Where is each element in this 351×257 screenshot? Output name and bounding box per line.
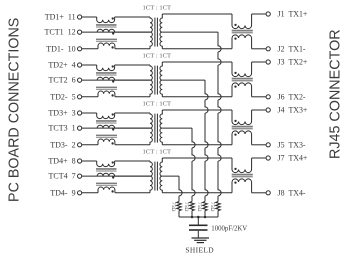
choke L1a phase dot (112, 17, 114, 19)
output choke L8 top phase dot (234, 168, 236, 170)
output choke L7 bottom phase dot (234, 133, 236, 135)
output choke L8 top winding (232, 158, 252, 173)
output choke L6 bottom winding (232, 83, 252, 97)
output choke L7 top winding (232, 110, 252, 125)
wire TD3- to choke (82, 144, 98, 146)
transformer T4 primary winding (150, 161, 152, 193)
wire TD2+ to choke (82, 64, 97, 66)
wire TCT4 to choke (82, 175, 150, 177)
output choke L5 core (232, 30, 253, 32)
svg-text:J6 TX2-: J6 TX2- (278, 92, 306, 101)
svg-text:J1 TX1+: J1 TX1+ (278, 10, 308, 19)
svg-text:TD2+ 4: TD2+ 4 (48, 61, 75, 70)
choke L2c core (96, 87, 117, 88)
svg-text:1CT : 1CT: 1CT : 1CT (143, 100, 172, 107)
wire T2 secondary CT bus (node CT2, hops over crossings) (205, 80, 208, 201)
svg-text:TD3- 2: TD3- 2 (50, 140, 75, 149)
transformer T2 secondary winding (160, 62, 162, 97)
pin J5 TX3- (RJ45) (266, 143, 270, 147)
transformer T1 secondary winding (160, 14, 162, 49)
svg-text:SHIELD: SHIELD (185, 245, 214, 254)
choke L1c phase dot (111, 46, 113, 48)
svg-text:TCT3 1: TCT3 1 (48, 124, 75, 133)
svg-text:J5 TX3-: J5 TX3- (278, 140, 306, 149)
transformer T1 primary winding (150, 17, 152, 49)
svg-text:75Ω: 75Ω (183, 202, 189, 212)
output choke L5 top winding (232, 14, 252, 29)
choke L4c core (96, 183, 117, 184)
output choke L8 core (232, 174, 253, 176)
wire choke to J3 (252, 61, 267, 63)
svg-text:TD3+ 3: TD3+ 3 (48, 109, 75, 118)
wire T4 secondary center tap (162, 175, 179, 177)
wire choke to J5 (252, 144, 267, 146)
choke L1c winding (TD1-) (98, 43, 115, 49)
transformer T2 core (154, 66, 156, 95)
wire choke to T1 top (115, 16, 150, 18)
wire T3 bottom to choke (162, 144, 232, 146)
svg-text:TD2- 5: TD2- 5 (50, 92, 75, 101)
wire TCT1 to choke (82, 31, 150, 33)
transformer T4 secondary winding (160, 158, 162, 193)
choke L2c winding (TD2-) (98, 91, 115, 97)
wire bus to capacitor C1 (197, 217, 199, 225)
svg-text:TD4+ 8: TD4+ 8 (48, 157, 75, 166)
wire T1 primary center tap (115, 31, 150, 33)
choke L4a winding (TD4+) (97, 161, 115, 167)
svg-text:J4 TX3+: J4 TX3+ (278, 106, 308, 115)
svg-text:TCT2 6: TCT2 6 (48, 76, 75, 85)
pin J2 TX1- (RJ45) (266, 47, 270, 51)
junction on bus at R3 (191, 216, 194, 219)
resistor R4 75Ω (177, 202, 182, 211)
wire T2 primary center tap (115, 79, 150, 81)
wire choke to T2 bottom (115, 96, 150, 98)
choke L1c core (96, 39, 117, 40)
pin J8 TX4- (RJ45) (266, 191, 270, 195)
pin J1 TX1+ (RJ45) (266, 12, 270, 16)
choke L2a phase dot (112, 65, 114, 67)
output choke L8 bottom phase dot (234, 181, 236, 183)
output choke L6 top phase dot (234, 72, 236, 74)
wire choke to T3 bottom (115, 144, 150, 146)
transformer T3 secondary winding (160, 110, 162, 145)
svg-text:75Ω: 75Ω (209, 202, 215, 212)
wire choke to J8 (252, 192, 267, 194)
wire T4 secondary CT bus (node CT4, hops over crossings) (179, 176, 182, 201)
choke L1b winding (TCT1) (97, 29, 114, 32)
choke L3c winding (TD3-) (98, 139, 115, 145)
choke L4c phase dot (111, 190, 113, 192)
svg-text:J2 TX1-: J2 TX1- (278, 44, 306, 53)
svg-text:TCT4 7: TCT4 7 (48, 172, 75, 181)
wire T1 bottom to choke (162, 48, 232, 50)
transformer T2 primary winding (150, 65, 152, 97)
wire C1 to shield ground (197, 231, 199, 238)
wire choke to J1 (252, 13, 267, 15)
svg-text:TCT1 12: TCT1 12 (44, 28, 75, 37)
wire T4 primary center tap (115, 175, 150, 177)
transformer T1 core (154, 18, 156, 47)
wire choke to T4 top (115, 160, 150, 162)
wire choke to J2 (252, 48, 267, 50)
svg-text:RJ45 CONNECTOR: RJ45 CONNECTOR (327, 29, 343, 159)
resistor R3 75Ω (190, 202, 195, 211)
choke L2b phase dot (112, 80, 114, 82)
pin J4 TX3+ (RJ45) (266, 108, 270, 112)
choke L3b phase dot (112, 128, 114, 130)
choke L2b winding (TCT2) (97, 77, 114, 80)
svg-text:J8 TX4-: J8 TX4- (278, 188, 306, 197)
choke L4c winding (TD4-) (98, 187, 115, 193)
ground (chassis/shield) (192, 237, 210, 239)
choke L3a winding (TD3+) (97, 113, 115, 119)
pin J7 TX4+ (RJ45) (266, 156, 270, 160)
wire choke to T1 bottom (115, 48, 150, 50)
resistor R1 75Ω (216, 202, 221, 211)
wire choke to J7 (252, 157, 267, 159)
svg-text:TD4- 9: TD4- 9 (50, 188, 75, 197)
output choke L7 core (232, 126, 253, 128)
wire TCT2 to choke (82, 79, 150, 81)
transformer T3 core (154, 114, 156, 143)
wire R1 to common bus (217, 211, 219, 217)
choke L1b phase dot (112, 32, 114, 34)
svg-text:PC BOARD CONNECTIONS: PC BOARD CONNECTIONS (7, 18, 23, 202)
wire choke to J4 (252, 109, 267, 111)
wire R4 to common bus (178, 211, 180, 217)
choke L2a core (96, 72, 117, 74)
wire common termination bus (179, 216, 218, 218)
output choke L5 bottom phase dot (234, 37, 236, 39)
wire T3 primary center tap (115, 127, 150, 129)
wire choke to T3 top (115, 112, 150, 114)
wire T3 secondary center tap (162, 127, 192, 129)
output choke L6 top winding (232, 62, 252, 77)
wire T1 secondary center tap (162, 31, 218, 33)
wire T4 top to choke (162, 157, 232, 159)
svg-text:1CT : 1CT: 1CT : 1CT (143, 148, 172, 155)
wire T2 top to choke (162, 61, 232, 63)
wire TD4- to choke (82, 192, 98, 194)
output choke L5 top phase dot (234, 24, 236, 26)
wire choke to T4 bottom (115, 192, 150, 194)
svg-text:TD1+ 11: TD1+ 11 (45, 13, 76, 22)
resistor R2 75Ω (203, 202, 208, 211)
svg-text:1CT : 1CT: 1CT : 1CT (143, 52, 172, 59)
choke L2c phase dot (111, 94, 113, 96)
pin J6 TX2- (RJ45) (266, 95, 270, 99)
svg-text:75Ω: 75Ω (196, 202, 202, 212)
choke L4b phase dot (112, 176, 114, 178)
svg-text:75Ω: 75Ω (170, 202, 176, 212)
choke L4a core (96, 168, 117, 170)
output choke L7 top phase dot (234, 120, 236, 122)
transformer T3 primary winding (150, 113, 152, 145)
output choke L6 core (232, 78, 253, 80)
wire TD3+ to choke (82, 112, 97, 114)
wire TCT3 to choke (82, 127, 150, 129)
junction on bus at capacitor (197, 216, 200, 219)
output choke L7 bottom winding (232, 131, 252, 145)
wire choke to J6 (252, 96, 267, 98)
wire TD1- to choke (82, 48, 98, 50)
output choke L8 bottom winding (232, 179, 252, 193)
choke L4b winding (TCT4) (97, 173, 114, 176)
svg-text:1CT : 1CT: 1CT : 1CT (143, 4, 172, 11)
wire R3 to common bus (191, 211, 193, 217)
wire T3 top to choke (162, 109, 232, 111)
svg-text:TD1- 10: TD1- 10 (46, 44, 75, 53)
choke L1a winding (TD1+) (97, 17, 115, 23)
wire TD1+ to choke (82, 16, 97, 18)
choke L1a core (96, 24, 117, 26)
svg-text:1000pF/2KV: 1000pF/2KV (211, 225, 247, 232)
wire T4 bottom to choke (162, 192, 232, 194)
transformer T4 core (154, 162, 156, 191)
wire TD2- to choke (82, 96, 98, 98)
wire choke to T2 top (115, 64, 150, 66)
wire T3 secondary CT bus (node CT3, hops over crossings) (192, 128, 195, 201)
wire R2 to common bus (204, 211, 206, 217)
wire T2 bottom to choke (162, 96, 232, 98)
choke L3c core (96, 135, 117, 136)
choke L3a phase dot (112, 113, 114, 115)
svg-text:J3 TX2+: J3 TX2+ (278, 58, 308, 67)
choke L3b winding (TCT3) (97, 125, 114, 128)
output choke L6 bottom phase dot (234, 85, 236, 87)
wire T1 secondary CT bus (node CT1, hops over crossings) (218, 32, 221, 201)
pin J3 TX2+ (RJ45) (266, 60, 270, 64)
wire TD4+ to choke (82, 160, 97, 162)
choke L3c phase dot (111, 142, 113, 144)
capacitor C1 1000pF/2KV (189, 225, 208, 227)
wire T2 secondary center tap (162, 79, 205, 81)
svg-text:J7 TX4+: J7 TX4+ (278, 154, 308, 163)
wire T1 top to choke (162, 13, 232, 15)
choke L2a winding (TD2+) (97, 65, 115, 71)
output choke L5 bottom winding (232, 35, 252, 49)
choke L3a core (96, 120, 117, 122)
junction on bus at R2 (204, 216, 207, 219)
choke L4a phase dot (112, 161, 114, 163)
